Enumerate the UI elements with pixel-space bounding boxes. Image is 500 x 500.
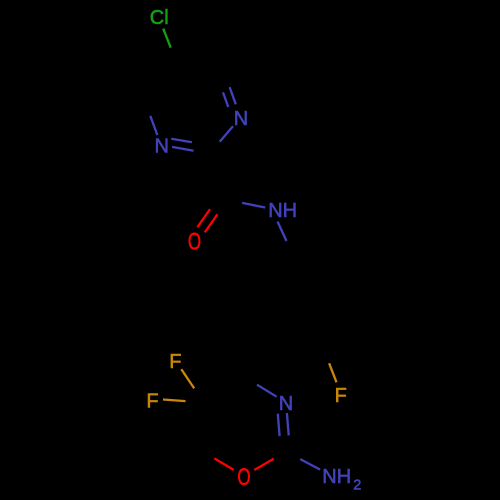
svg-text:N: N bbox=[154, 136, 168, 158]
bond F-C5'' gold half (upper) bbox=[181, 369, 194, 388]
bond F-C5'' gold half (left) bbox=[163, 400, 186, 402]
svg-text:Cl: Cl bbox=[150, 7, 169, 29]
bond O1''-C2'' single, O-half bbox=[254, 459, 273, 470]
svg-text:2: 2 bbox=[353, 478, 361, 494]
bond N3=C2 double, N-half main line bbox=[172, 147, 193, 151]
bond C=O double, O-half line 2 bbox=[205, 214, 218, 232]
svg-text:F: F bbox=[335, 385, 347, 407]
bond C=O double, O-half line 1 bbox=[197, 209, 210, 227]
bond N3''=C2'' double, N-half main line bbox=[287, 413, 289, 435]
bond N3-C6 single, N-half bbox=[150, 116, 157, 135]
svg-text:N: N bbox=[234, 108, 248, 130]
bond O1''-C6'' single, O-half bbox=[214, 458, 233, 470]
svg-text:F: F bbox=[146, 391, 158, 413]
bond N3=C2 double, N-half inner line bbox=[171, 139, 192, 143]
svg-text:N: N bbox=[279, 393, 293, 415]
bond N3''=C2'' double, N-half inner line bbox=[278, 414, 280, 436]
svg-text:O: O bbox=[188, 228, 201, 255]
bond C4=N1 double, N-half main line bbox=[230, 87, 236, 104]
bond F-C4' gold half bbox=[329, 363, 336, 382]
svg-text:O: O bbox=[237, 464, 250, 491]
bond N(H)-C1(phenyl), N-half bbox=[278, 222, 287, 242]
svg-text:F: F bbox=[169, 351, 181, 373]
bond C4=N1 double, N-half inner line bbox=[223, 92, 228, 107]
bond N(H2)-C2'' blue half bbox=[300, 459, 320, 470]
svg-text:NH: NH bbox=[268, 200, 297, 222]
bond N1-C2 single, N-half bbox=[220, 126, 233, 142]
svg-text:NH: NH bbox=[322, 466, 351, 488]
bond N3''-C4'' single, N-half bbox=[257, 385, 277, 397]
bond Cl-C5 green half bbox=[163, 29, 171, 48]
bond N(H)-C(carbonyl), N-half bbox=[242, 203, 265, 208]
